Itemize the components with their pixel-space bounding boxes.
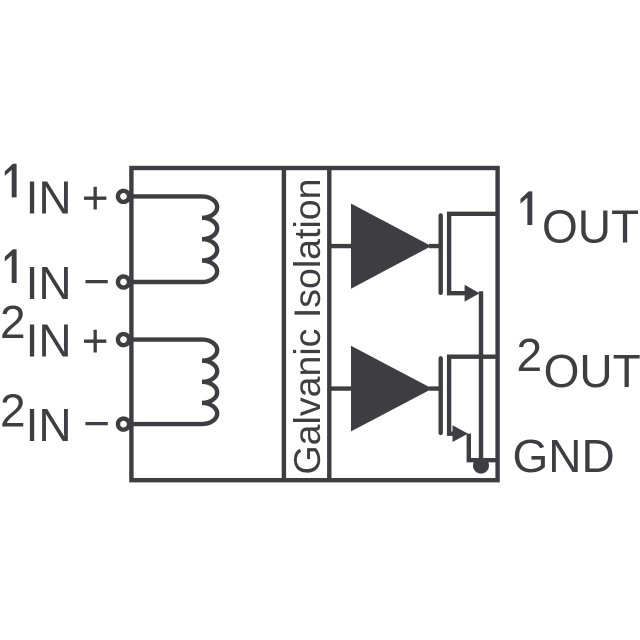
svg-text:IN: IN bbox=[26, 171, 72, 223]
svg-text:IN: IN bbox=[26, 257, 72, 309]
svg-text:2: 2 bbox=[0, 296, 26, 348]
svg-text:GND: GND bbox=[513, 430, 615, 482]
svg-text:−: − bbox=[83, 397, 110, 449]
svg-text:+: + bbox=[82, 315, 109, 367]
svg-text:+: + bbox=[82, 171, 109, 223]
svg-text:IN: IN bbox=[26, 399, 72, 451]
svg-text:−: − bbox=[83, 255, 110, 307]
svg-text:OUT: OUT bbox=[542, 201, 639, 253]
svg-text:IN: IN bbox=[26, 315, 72, 367]
svg-text:Galvanic Isolation: Galvanic Isolation bbox=[286, 179, 328, 475]
svg-text:OUT: OUT bbox=[544, 345, 640, 397]
svg-text:2: 2 bbox=[0, 384, 26, 436]
svg-text:2: 2 bbox=[517, 329, 543, 381]
